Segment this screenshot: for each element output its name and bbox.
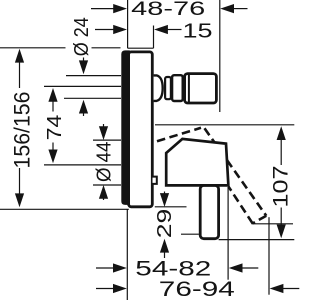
wall plate (side view, filled band) — [121, 50, 130, 205]
svg-text:48-76: 48-76 — [131, 0, 205, 20]
knob stem small cylinder — [165, 77, 171, 99]
dimension 29 arrows — [160, 192, 169, 259]
extension line: plate top — [0, 47, 121, 49]
handle hub (side view) — [166, 139, 228, 186]
extension line: wall face (bottom) — [126, 210, 128, 300]
body lower step — [153, 177, 157, 184]
extension line: sleeve d74 bottom — [44, 164, 121, 166]
handle open position (dashed) — [157, 128, 266, 224]
dimension 54-82 arrows — [96, 263, 258, 272]
svg-text:76-94: 76-94 — [159, 278, 235, 300]
extension line: grip bottom right — [219, 239, 295, 241]
dimension 76-94 arrows — [96, 284, 299, 293]
extension line: wall face (top) — [127, 0, 129, 48]
extension line: open lever end (bottom) — [268, 217, 270, 295]
extension line: grip bottom left — [181, 233, 199, 235]
knob stem collar — [172, 75, 183, 101]
extension line: handle d44 bottom — [93, 184, 121, 186]
handle grip (closed position) — [200, 186, 218, 239]
dimension 15 line+arrows — [95, 25, 182, 34]
svg-text:15: 15 — [183, 20, 213, 42]
extension line: hub outer edge (bottom) — [227, 187, 229, 280]
svg-text:Ø 24: Ø 24 — [71, 17, 93, 56]
extension line: handle d44 top — [93, 139, 121, 141]
svg-text:74: 74 — [43, 115, 66, 141]
volume control knob — [185, 74, 217, 103]
valve body sleeve (side view) — [129, 52, 153, 207]
svg-text:Ø 44: Ø 44 — [94, 142, 116, 183]
extension line: knob d24 bottom — [64, 97, 121, 99]
svg-text:107: 107 — [270, 166, 293, 208]
extension line: plate bottom — [0, 208, 129, 210]
dimension diam44 arrows — [99, 124, 108, 200]
dimension 156/156 arrows — [15, 49, 24, 207]
body top cap line — [128, 47, 154, 49]
extension line: body bottom right — [155, 206, 187, 208]
extension line: sleeve d74 top — [44, 85, 121, 87]
dimension 48-76 line+arrows — [91, 4, 248, 13]
extension line: open lever corner — [252, 223, 294, 225]
dimension 74 arrows — [48, 88, 57, 163]
dimension diam24 arrows — [79, 58, 88, 117]
svg-text:29: 29 — [154, 209, 176, 239]
extension line: knob end (top) — [219, 0, 221, 112]
dimension 107 arrows — [277, 126, 286, 238]
knob escutcheon bump — [154, 75, 163, 101]
extension line: cartridge axis — [155, 124, 294, 126]
extension line: knob d24 top — [66, 75, 121, 77]
extension line: sleeve front (top) — [153, 26, 155, 49]
svg-text:156/156: 156/156 — [10, 92, 35, 169]
svg-text:54-82: 54-82 — [135, 257, 211, 281]
